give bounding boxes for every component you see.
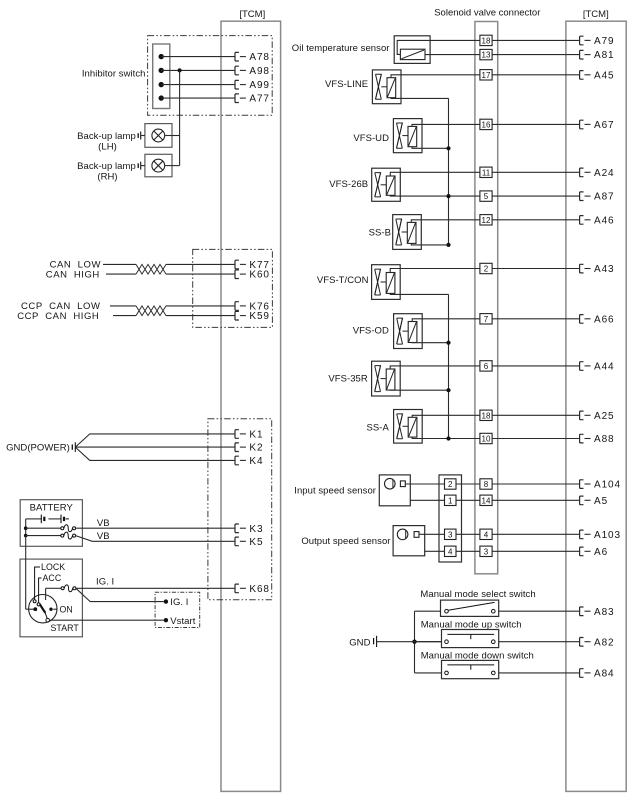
svg-text:A99: A99	[249, 80, 270, 91]
wire output speed sensor return	[425, 550, 445, 552]
svg-text:12: 12	[482, 216, 491, 225]
fusible link IG.I	[46, 585, 76, 600]
wire pin 4 to right TCM	[492, 533, 579, 535]
svg-text:18: 18	[482, 411, 491, 420]
svg-text:10: 10	[482, 435, 491, 444]
pin A99 (left TCM)	[235, 80, 270, 91]
wire inhibitor switch to A98	[161, 69, 235, 71]
pin K60 (left TCM)	[235, 270, 270, 281]
svg-text:VFS-OD: VFS-OD	[353, 326, 389, 337]
wire battery feed to ignition switch	[26, 536, 34, 610]
svg-text:K3: K3	[249, 524, 263, 535]
solenoid valve connector pin 7	[480, 314, 492, 324]
svg-text:A66: A66	[594, 314, 615, 325]
svg-text:A78: A78	[249, 52, 270, 63]
wire inhibitor switch to A78	[161, 56, 235, 58]
connector mark back-up lamp LH	[138, 132, 145, 140]
wire SS-A top terminal	[412, 415, 480, 417]
pin A66 (right TCM)	[580, 314, 615, 325]
solenoid VFS-OD	[394, 314, 423, 349]
svg-text:VB: VB	[97, 531, 110, 542]
label BATTERY	[30, 503, 74, 514]
svg-text:6: 6	[484, 362, 489, 371]
solenoid valve connector pin 13	[480, 49, 492, 59]
solenoid valve connector pin 2	[480, 263, 492, 273]
inhibitor switch contact 3	[159, 82, 164, 87]
ignition switch box	[20, 559, 82, 637]
svg-text:K60: K60	[249, 270, 270, 281]
battery box	[20, 500, 82, 547]
LOCK contact	[33, 600, 36, 603]
label Inhibitor switch	[82, 68, 146, 79]
wire VFS-OD top terminal	[412, 319, 480, 322]
wire input speed sensor signal	[405, 483, 444, 485]
svg-text:ACC: ACC	[43, 573, 62, 583]
svg-text:A82: A82	[594, 637, 615, 648]
label VFS-OD	[353, 326, 389, 337]
pin A84 (right TCM)	[580, 669, 615, 680]
manual mode GND bus	[414, 611, 416, 673]
junction bus1 VFS-UD	[446, 146, 450, 150]
svg-text:A81: A81	[594, 50, 615, 61]
svg-text:3: 3	[448, 530, 453, 539]
wire sub-connector 1-14	[456, 499, 480, 501]
svg-text:BATTERY: BATTERY	[30, 503, 74, 514]
solenoid valve connector pin 10	[480, 433, 492, 443]
label SS-A	[367, 423, 390, 434]
wire inhibitor switch to A77	[161, 97, 235, 99]
svg-text:Manual mode up switch: Manual mode up switch	[421, 619, 522, 630]
wire GND to switches	[377, 641, 442, 643]
svg-text:A45: A45	[594, 70, 615, 81]
svg-text:Inhibitor switch: Inhibitor switch	[82, 68, 146, 79]
wire back-up lamp RH	[165, 165, 180, 167]
manual mode up switch	[442, 630, 499, 648]
wire select switch to A83	[499, 610, 580, 612]
label Manual mode down switch	[421, 650, 534, 661]
svg-text:A83: A83	[594, 607, 615, 618]
pin A104 (right TCM)	[580, 480, 621, 491]
solenoid valve connector pin 17	[480, 70, 492, 80]
svg-text:START: START	[51, 623, 80, 633]
input speed sensor pickup	[385, 478, 406, 489]
svg-text:CAN HIGH: CAN HIGH	[46, 270, 100, 281]
pin A98 (left TCM)	[235, 66, 270, 77]
label [TCM] left	[239, 9, 265, 20]
label CAN HIGH	[46, 270, 100, 281]
svg-text:A25: A25	[594, 411, 615, 422]
wire pin 7 to right TCM	[492, 318, 579, 320]
battery tap junction VB1	[24, 526, 28, 530]
svg-text:GND: GND	[349, 637, 370, 648]
svg-text:A98: A98	[249, 66, 270, 77]
junction bus2 VFS-OD	[446, 341, 450, 345]
twisted pair CCP CAN	[136, 306, 166, 316]
svg-text:SS-A: SS-A	[367, 423, 390, 434]
svg-text:(LH): (LH)	[98, 142, 117, 153]
ignition key switch circle	[29, 595, 57, 623]
pin K68 (left TCM)	[235, 584, 270, 595]
twisted pair CAN	[136, 264, 166, 274]
wire VFS-UD bottom terminal	[412, 147, 449, 149]
svg-text:5: 5	[484, 192, 489, 201]
svg-text:K5: K5	[249, 537, 263, 548]
wire SS-B top terminal	[411, 220, 480, 223]
sub-connector pin 4	[445, 546, 457, 556]
key arm	[40, 604, 47, 618]
inhibitor switch harness dash-dot box	[148, 36, 273, 116]
wire inhibitor switch to A99	[161, 84, 235, 86]
wire GND(POWER) to K4	[75, 447, 235, 460]
wire CAN LOW to K77	[103, 263, 235, 265]
label Manual mode up switch	[421, 619, 522, 630]
svg-text:A88: A88	[594, 434, 615, 445]
solenoid valve connector pin 16	[480, 119, 492, 129]
junction bus2 VFS-35R	[446, 388, 450, 392]
svg-text:Manual mode select switch: Manual mode select switch	[420, 589, 535, 600]
pin A45 (right TCM)	[580, 70, 615, 81]
pin K3 (left TCM)	[235, 524, 263, 535]
TCM internal dashed box	[155, 592, 200, 627]
label Input speed sensor	[294, 486, 376, 497]
pin K5 (left TCM)	[235, 537, 263, 548]
wire output speed sensor signal	[419, 533, 445, 535]
manual mode down switch	[442, 660, 499, 678]
wire CCP CAN LOW to K76	[110, 305, 235, 307]
svg-text:13: 13	[482, 51, 491, 60]
junction bus1 SS-B	[446, 243, 450, 247]
pin A5 (right TCM)	[580, 496, 608, 507]
svg-text:Oil temperature sensor: Oil temperature sensor	[292, 43, 390, 54]
pin A67 (right TCM)	[580, 120, 615, 131]
solenoid valve connector pin 18	[480, 410, 492, 420]
svg-text:A104: A104	[594, 480, 621, 491]
input speed sensor box	[379, 475, 410, 506]
wire VB to K3	[76, 518, 235, 529]
svg-text:A77: A77	[249, 94, 270, 105]
label ON	[60, 604, 73, 614]
svg-text:17: 17	[482, 71, 491, 80]
wire CAN HIGH to K60	[106, 273, 235, 275]
label Output speed sensor	[301, 536, 390, 547]
pin K2 (left TCM)	[235, 443, 263, 454]
back-up lamp RH bulb	[152, 159, 165, 172]
svg-text:Back-up lamp: Back-up lamp	[77, 131, 136, 142]
label CCP CAN HIGH	[17, 311, 99, 322]
solenoid valve connector column	[475, 22, 498, 574]
manual mode select switch	[441, 600, 499, 616]
label Manual mode select switch	[420, 589, 535, 600]
svg-text:A46: A46	[594, 215, 615, 226]
wire IG.I branch to TCM internal	[76, 588, 164, 601]
pin A83 (right TCM)	[580, 607, 615, 618]
wire VFS-35R top terminal	[390, 366, 480, 369]
solenoid common bus 1	[448, 98, 450, 245]
wire VFS-35R bottom terminal	[390, 389, 448, 391]
oil temperature sensor box	[394, 36, 430, 64]
wire up switch to GND bus	[415, 641, 442, 643]
label VFS-UD	[353, 133, 389, 144]
svg-text:Input speed sensor: Input speed sensor	[294, 486, 376, 497]
wire up switch to A82	[499, 641, 580, 643]
svg-text:GND(POWER): GND(POWER)	[6, 443, 70, 454]
svg-text:VFS-T/CON: VFS-T/CON	[317, 275, 369, 286]
wire pin 17 to right TCM	[492, 74, 579, 76]
battery cells symbol	[26, 515, 69, 524]
pin A82 (right TCM)	[580, 637, 615, 648]
fusible link VB lower	[26, 532, 76, 539]
connector mark back-up lamp RH	[138, 162, 145, 170]
solenoid valve connector pin 18	[480, 35, 492, 45]
label Back-up lamp (RH)	[77, 161, 136, 183]
ACC contact	[37, 603, 40, 606]
pin A46 (right TCM)	[580, 215, 615, 226]
back-up lamp LH bulb	[152, 129, 165, 142]
svg-text:A5: A5	[594, 496, 608, 507]
solenoid valve connector pin 5	[480, 191, 492, 201]
left TCM connector box	[221, 21, 281, 791]
label LOCK with leader	[35, 562, 66, 600]
pin A25 (right TCM)	[580, 411, 615, 422]
wire pin 6 to right TCM	[492, 365, 579, 367]
pin K1 (left TCM)	[235, 430, 263, 441]
wire VFS-26B top terminal	[390, 172, 480, 176]
svg-text:7: 7	[484, 315, 489, 324]
svg-text:K2: K2	[249, 443, 263, 454]
wire pin 11 to right TCM	[492, 171, 579, 173]
speed sensor sub-connector	[439, 475, 462, 562]
solenoid valve connector pin 4	[480, 529, 492, 539]
label VFS-26B	[329, 179, 368, 190]
solenoid SS-B	[393, 215, 422, 250]
back-up lamp RH box	[145, 154, 172, 177]
svg-text:16: 16	[482, 120, 491, 129]
output speed sensor pickup	[397, 529, 419, 540]
svg-text:Back-up lamp: Back-up lamp	[77, 161, 136, 172]
pin A81 (right TCM)	[580, 50, 615, 61]
inhibitor switch contact 1	[159, 54, 164, 59]
wire VFS-26B bottom terminal	[390, 194, 480, 197]
pin A79 (right TCM)	[580, 36, 615, 47]
svg-text:A79: A79	[594, 36, 615, 47]
svg-text:K59: K59	[249, 311, 270, 322]
pin A44 (right TCM)	[580, 362, 615, 373]
wire VB to K5	[76, 531, 235, 542]
pin K77 (left TCM)	[235, 260, 270, 271]
START contact	[46, 618, 50, 622]
pin A88 (right TCM)	[580, 434, 615, 445]
solenoid valve connector pin 11	[480, 167, 492, 177]
pin A43 (right TCM)	[580, 264, 615, 275]
svg-text:VB: VB	[97, 518, 110, 529]
pin A24 (right TCM)	[580, 168, 615, 179]
solenoid valve connector pin 14	[480, 495, 492, 505]
solenoid valve connector pin 8	[480, 479, 492, 489]
wire select switch to GND bus	[415, 610, 441, 612]
svg-text:4: 4	[484, 530, 489, 539]
svg-text:VFS-LINE: VFS-LINE	[325, 79, 368, 90]
label Solenoid valve connector	[434, 8, 540, 19]
battery left bus	[25, 519, 27, 536]
svg-text:IG. I: IG. I	[96, 577, 114, 588]
inhibitor switch contact 4	[159, 95, 164, 100]
label GND	[349, 637, 370, 648]
wire pin 5 to right TCM	[492, 195, 579, 197]
svg-text:1: 1	[448, 496, 453, 505]
wire pin 13 to right TCM	[492, 54, 579, 56]
label IG. I	[96, 577, 114, 588]
wire VFS-T/CON bottom terminal	[390, 293, 448, 294]
wire VFS-T/CON top terminal	[390, 269, 480, 273]
solenoid SS-A	[394, 410, 423, 444]
solenoid valve connector pin 6	[480, 361, 492, 371]
node Vstart	[164, 616, 196, 627]
label CCP CAN LOW	[21, 301, 100, 312]
wire sub-connector 4-3	[456, 550, 480, 552]
svg-text:K68: K68	[249, 584, 270, 595]
wire down switch to A84	[499, 672, 580, 674]
inhibitor switch contact 2	[159, 68, 164, 73]
svg-text:VFS-26B: VFS-26B	[329, 179, 368, 190]
label ACC with leader	[39, 573, 62, 603]
label [TCM] right	[583, 9, 609, 20]
svg-text:[TCM]: [TCM]	[239, 9, 265, 20]
junction on A98 wire	[178, 68, 182, 72]
wire pin 8 to right TCM	[492, 483, 579, 485]
fusible link VB upper	[26, 525, 76, 532]
svg-text:Manual mode down switch: Manual mode down switch	[421, 650, 534, 661]
sub-connector pin 1	[445, 495, 457, 505]
oil temperature sensor thermistor	[400, 49, 425, 59]
label START	[51, 623, 80, 633]
svg-text:LOCK: LOCK	[41, 562, 65, 572]
wire VFS-LINE bottom terminal	[391, 97, 449, 100]
label Back-up lamp (LH)	[77, 131, 136, 153]
svg-text:(RH): (RH)	[97, 172, 117, 183]
svg-text:A6: A6	[594, 547, 608, 558]
svg-text:Vstart: Vstart	[170, 616, 195, 627]
label VFS-T/CON	[317, 275, 369, 286]
svg-text:2: 2	[448, 480, 453, 489]
solenoid common bus 2	[448, 294, 450, 438]
svg-text:IG. I: IG. I	[170, 597, 188, 608]
pin K76 (left TCM)	[235, 302, 270, 313]
pin K59 (left TCM)	[235, 311, 270, 322]
svg-text:A43: A43	[594, 264, 615, 275]
solenoid VFS-35R	[372, 361, 401, 396]
svg-text:8: 8	[484, 480, 489, 489]
wire pin 3 to right TCM	[492, 550, 579, 552]
svg-text:11: 11	[482, 168, 491, 177]
back-up lamp LH box	[145, 124, 172, 148]
solenoid VFS-UD	[393, 119, 422, 153]
pin K4 (left TCM)	[235, 456, 263, 467]
svg-text:K4: K4	[249, 456, 263, 467]
wire SS-A bottom terminal	[412, 437, 480, 438]
label GND(POWER)	[6, 443, 70, 454]
svg-text:2: 2	[484, 265, 489, 274]
svg-text:A84: A84	[594, 669, 615, 680]
node IG. I	[164, 597, 189, 608]
svg-text:Output speed sensor: Output speed sensor	[301, 536, 390, 547]
label Oil temperature sensor	[292, 43, 390, 54]
wire VFS-LINE top terminal	[391, 75, 480, 78]
svg-text:18: 18	[482, 36, 491, 45]
svg-text:A87: A87	[594, 192, 615, 203]
label VFS-35R	[328, 373, 368, 384]
wire VFS-UD top terminal	[412, 124, 480, 126]
svg-text:VFS-UD: VFS-UD	[353, 133, 389, 144]
right TCM connector box	[566, 21, 626, 791]
wire junction down to back-up lamps	[179, 70, 181, 165]
junction bus1 pin 5 wire	[446, 194, 450, 198]
output speed sensor box	[393, 526, 425, 556]
GND(POWER) connector mark	[72, 442, 75, 452]
wire pin 18 to right TCM	[492, 414, 579, 416]
wire pin 16 to right TCM	[492, 123, 579, 125]
svg-text:A103: A103	[594, 530, 621, 541]
label VFS-LINE	[325, 79, 368, 90]
inhibitor switch body	[153, 44, 170, 109]
pin A6 (right TCM)	[580, 547, 608, 558]
svg-text:ON: ON	[60, 604, 73, 614]
pin A77 (left TCM)	[235, 94, 270, 105]
wire CCP CAN HIGH to K59	[113, 315, 235, 317]
wire pin 18 to right TCM	[492, 39, 579, 41]
junction GND bus	[412, 640, 416, 644]
wire down switch to GND bus	[415, 672, 442, 674]
svg-text:A67: A67	[594, 120, 615, 131]
wire GND(POWER) to K1	[75, 434, 235, 447]
solenoid VFS-T/CON	[372, 265, 401, 300]
solenoid VFS-LINE	[372, 70, 401, 104]
wire pin 12 to right TCM	[492, 219, 579, 221]
wire IG.I to K68	[76, 587, 235, 589]
svg-text:3: 3	[484, 547, 489, 556]
wire oil temp sensor to pin 18	[397, 40, 480, 54]
wire pin 14 to right TCM	[492, 499, 579, 501]
GND connector mark	[374, 636, 377, 647]
K-connector harness dash-dot box	[208, 419, 272, 600]
wire sub-connector 2-8	[456, 483, 480, 485]
wire GND(POWER) to K2	[75, 446, 235, 448]
svg-text:A24: A24	[594, 168, 615, 179]
svg-text:SS-B: SS-B	[369, 228, 391, 239]
svg-text:CCP CAN HIGH: CCP CAN HIGH	[17, 311, 99, 322]
solenoid VFS-26B	[372, 168, 401, 201]
wire sub-connector 3-4	[456, 533, 480, 535]
wire pin 2 to right TCM	[492, 268, 579, 270]
wire pin 10 to right TCM	[492, 438, 579, 440]
solenoid valve connector pin 3	[480, 546, 492, 556]
svg-text:[TCM]: [TCM]	[583, 9, 609, 20]
svg-text:14: 14	[482, 496, 491, 505]
svg-text:A44: A44	[594, 362, 615, 373]
wire SS-B bottom terminal	[411, 243, 448, 245]
wire Vstart	[50, 619, 164, 621]
label SS-B	[369, 228, 391, 239]
wire back-up lamp LH	[165, 135, 180, 137]
svg-text:4: 4	[448, 547, 453, 556]
sub-connector pin 3	[445, 529, 457, 539]
wire VFS-OD bottom terminal	[412, 342, 448, 344]
sub-connector pin 2	[445, 479, 457, 489]
CAN harness dash-dot box	[193, 249, 273, 327]
pin A103 (right TCM)	[580, 530, 621, 541]
pin A78 (left TCM)	[235, 52, 270, 63]
ON contact	[49, 608, 57, 611]
ignition feed contact	[33, 607, 37, 611]
